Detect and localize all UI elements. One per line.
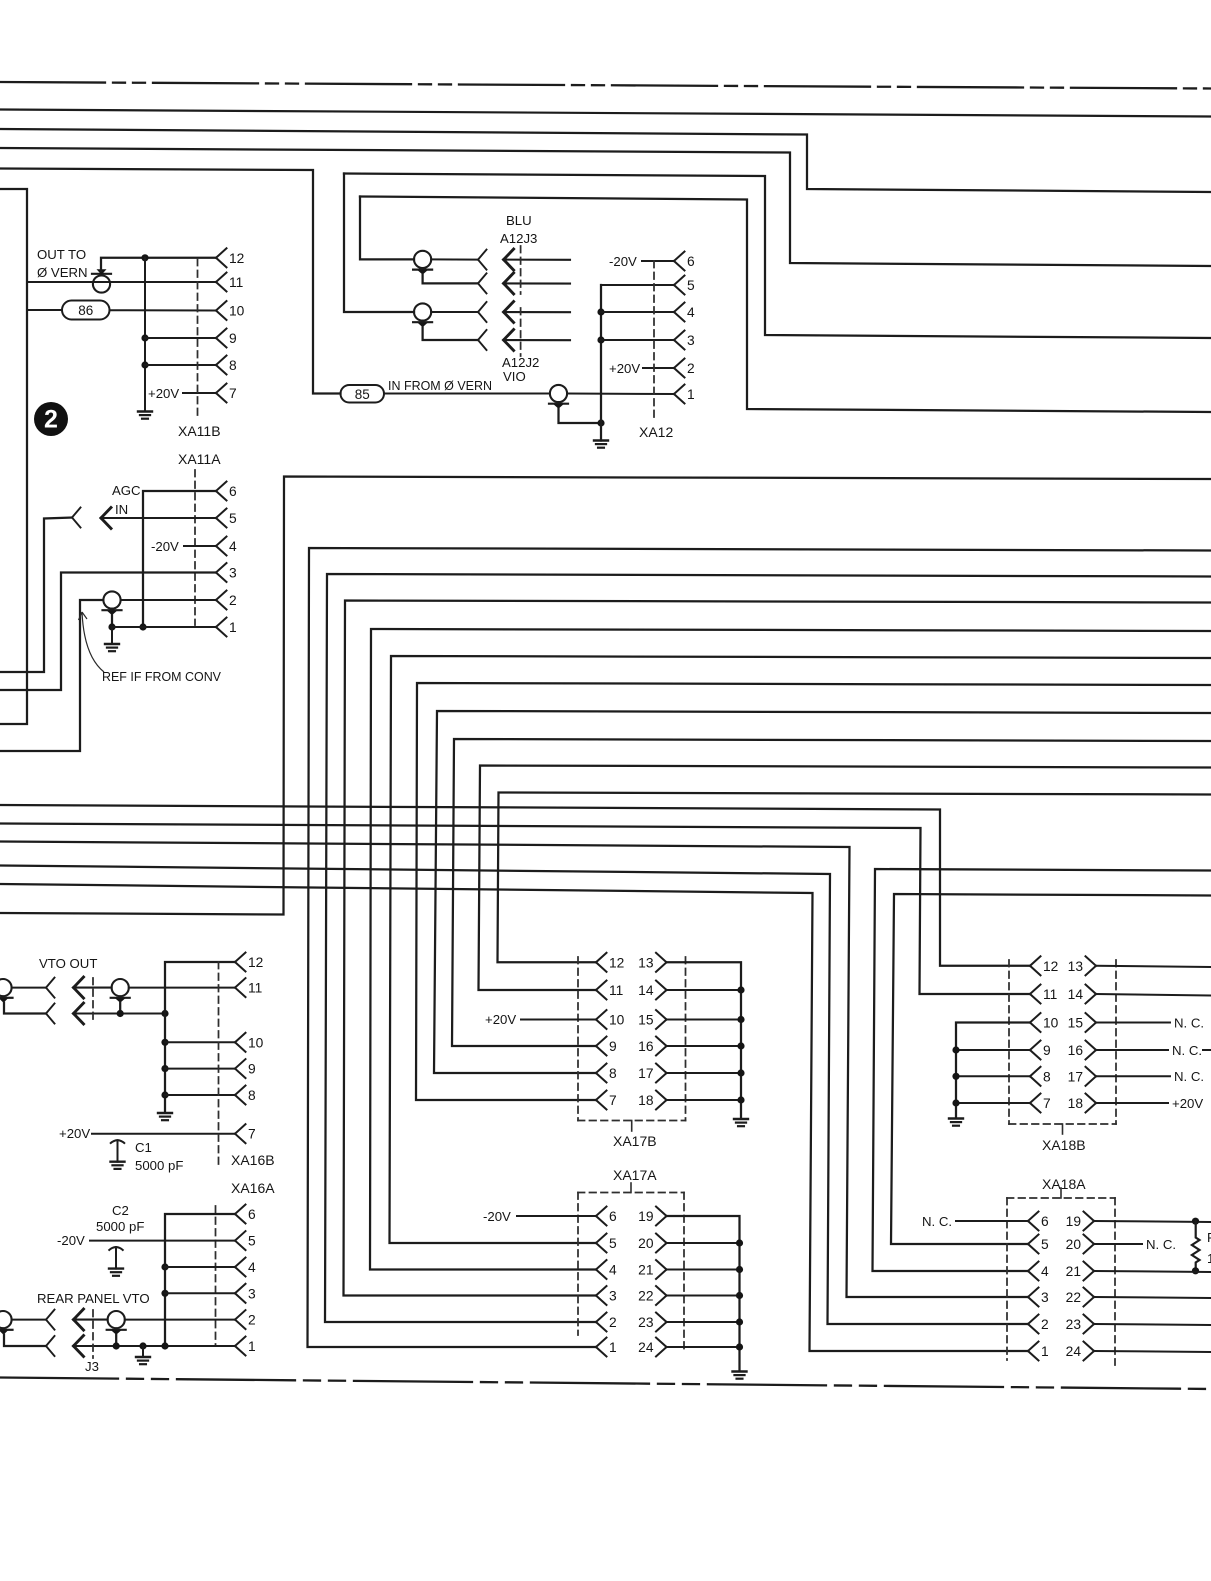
- label XA12: [639, 424, 673, 440]
- svg-text:J3: J3: [85, 1359, 99, 1374]
- svg-text:C2: C2: [112, 1203, 129, 1218]
- wire XA12 pin5: [601, 284, 674, 286]
- wire ground bus XA11B: [144, 258, 146, 411]
- wire mid coax shield stub: [119, 1003, 121, 1014]
- wire XA17A pin20 to bus + junction: [667, 1239, 744, 1246]
- plug half row4: [478, 330, 487, 350]
- wire W5 (bundle): [370, 629, 1211, 1270]
- wire L3 stepped: [0, 148, 1211, 266]
- svg-text:6: 6: [248, 1207, 256, 1222]
- leader arrow REF IF FROM CONV: [79, 612, 105, 672]
- connector XA11B pin 10: [216, 301, 245, 320]
- wire M1 to XA18B pin12: [0, 805, 1030, 966]
- coax jack at sheet edge (REAR PANEL VTO): [0, 1311, 13, 1335]
- connector XA17A pin 5: [596, 1234, 617, 1253]
- wire W8 (bundle): [434, 711, 1211, 1073]
- REAR VTO plug half row1: [46, 1310, 55, 1330]
- connector XA17A pin 19: [638, 1207, 666, 1226]
- label -20V at XA16A pin5: [57, 1233, 85, 1248]
- wire W1 (bundle outer, to left edge): [0, 477, 1211, 915]
- connector XA18B pin 15: [1068, 1013, 1096, 1032]
- junction ground stub/pin1: [139, 1342, 146, 1349]
- junction bus/pin1: [161, 1342, 168, 1349]
- connector XA18A pin 6: [1028, 1212, 1049, 1231]
- wire L4b branch to A12J2 coax: [344, 174, 414, 313]
- connector XA11B pin 7: [216, 384, 237, 403]
- svg-text:1: 1: [1041, 1344, 1049, 1359]
- wire XA18B pin10 + ground bus: [956, 1023, 1030, 1119]
- connector XA17A pin 21: [638, 1260, 666, 1279]
- label BLU / A12J3: [500, 213, 537, 246]
- wire XA17A pin24 to bus + junction: [667, 1343, 744, 1350]
- connector XA17A pin 23: [638, 1313, 666, 1332]
- junction shield/pin1: [113, 1342, 120, 1349]
- svg-text:7: 7: [1043, 1096, 1051, 1111]
- label N.C. pin16: [1172, 1043, 1202, 1058]
- svg-text:+20V: +20V: [485, 1012, 516, 1027]
- wire W11 (bundle): [498, 793, 1211, 963]
- wire coax2 shield to row4: [423, 327, 478, 340]
- svg-text:21: 21: [638, 1263, 653, 1278]
- wire edge coax to plug arrow: [12, 1319, 46, 1321]
- svg-text:8: 8: [229, 358, 237, 373]
- label XA17A: [613, 1167, 657, 1183]
- wire XA18B pin13 to edge: [1096, 966, 1211, 967]
- label N.C. at XA18A pin6: [922, 1214, 952, 1229]
- svg-text:12: 12: [609, 955, 624, 970]
- connector XA16B pin 11: [235, 978, 262, 997]
- wire -20V to XA12 pin6: [642, 260, 674, 262]
- label XA18A: [1042, 1176, 1086, 1192]
- svg-text:3: 3: [609, 1289, 617, 1304]
- svg-text:16: 16: [638, 1039, 654, 1054]
- svg-text:3: 3: [1041, 1290, 1049, 1305]
- label XA11A: [178, 451, 221, 467]
- svg-text:5: 5: [229, 511, 237, 526]
- label XA16A: [231, 1180, 275, 1196]
- svg-text:4: 4: [609, 1263, 617, 1278]
- flag 86 oval: [62, 301, 110, 320]
- label C1 5000 pF: [135, 1140, 183, 1173]
- svg-text:5000 pF: 5000 pF: [96, 1219, 144, 1234]
- connector XA16B pin 12: [235, 953, 263, 972]
- svg-text:-20V: -20V: [609, 254, 637, 269]
- junction bus/pin9: [161, 1065, 168, 1072]
- wire: bottom sheet boundary (dash-dot): [0, 1378, 1211, 1390]
- plug half row3: [478, 302, 487, 322]
- connector XA18B pin 7: [1030, 1094, 1051, 1113]
- svg-text:1: 1: [687, 387, 695, 402]
- wire stub to ground: [111, 627, 113, 644]
- label +20V at XA12 pin2: [609, 361, 640, 376]
- label XA11B: [178, 423, 221, 439]
- wire XA16B pin12 + ground bus: [165, 962, 235, 1113]
- wire L1 full-width: [0, 110, 1211, 117]
- connector XA11A pin 2: [216, 591, 237, 610]
- svg-text:-20V: -20V: [151, 539, 179, 554]
- svg-text:18: 18: [1068, 1096, 1084, 1111]
- wire XA17B pin16 to bus + junction: [667, 1042, 745, 1049]
- wire coax1 shield to row2: [423, 275, 478, 284]
- AGC IN jack half (bold arrow): [101, 508, 111, 529]
- junction row2/bus: [161, 1010, 168, 1017]
- connector XA11A pin 4: [216, 537, 237, 556]
- svg-text:17: 17: [638, 1066, 653, 1081]
- junction bus/pin4: [597, 308, 604, 315]
- svg-text:11: 11: [1043, 987, 1057, 1002]
- wire N.C. pin16 continues to edge: [1203, 1049, 1211, 1051]
- ground XA12 bus: [594, 441, 608, 448]
- svg-text:85: 85: [355, 387, 370, 402]
- wire XA18B pin7 to bus + junction: [952, 1099, 1030, 1106]
- wire coax2 to plug arrow row3: [431, 311, 478, 313]
- svg-text:5000 pF: 5000 pF: [135, 1158, 183, 1173]
- svg-text:10: 10: [609, 1013, 625, 1028]
- wire stub to ground: [142, 1346, 144, 1357]
- svg-text:N. C.: N. C.: [1174, 1069, 1204, 1084]
- connector XA17B pin 8: [596, 1064, 617, 1083]
- coax jack REAR PANEL VTO (middle): [107, 1311, 126, 1335]
- connector XA17A pin 2: [596, 1313, 617, 1332]
- wire W6 (bundle): [390, 656, 1211, 1243]
- wire XA17B pin14 to bus + junction: [667, 986, 745, 993]
- connector XA18A pin 21: [1066, 1262, 1094, 1281]
- svg-text:3: 3: [229, 566, 237, 581]
- label REAR PANEL VTO: [37, 1291, 150, 1306]
- connector XA17A pin 6: [596, 1207, 617, 1226]
- svg-text:22: 22: [1066, 1290, 1081, 1305]
- wire XA18A pin20 to N.C.: [1094, 1243, 1142, 1245]
- connector XA18B pin 13: [1068, 956, 1096, 975]
- connector XA16B pin 7: [235, 1124, 256, 1143]
- wire XA12 ground bus vertical: [600, 285, 602, 441]
- connector XA16A pin 2: [235, 1310, 256, 1329]
- connector XA18B pin 8: [1030, 1067, 1051, 1086]
- connector XA18A pin 23: [1066, 1315, 1094, 1334]
- connector XA11A pin 6: [216, 482, 237, 501]
- connector XA11B pin 11: [216, 273, 243, 292]
- connector XA17A pin 20: [638, 1234, 666, 1253]
- junction resistor top: [1192, 1218, 1199, 1225]
- svg-text:+20V: +20V: [59, 1126, 90, 1141]
- wire flag86 left tail: [27, 309, 62, 311]
- ground XA18B bus: [949, 1119, 963, 1126]
- connector XA17B pin 16: [638, 1037, 666, 1056]
- VTO OUT jack half row2 (bold): [74, 1003, 84, 1024]
- wire flag86 to XA11B pin10: [110, 309, 217, 311]
- svg-text:19: 19: [638, 1209, 654, 1224]
- connector XA18B pin 9: [1030, 1041, 1051, 1060]
- svg-text:5: 5: [609, 1236, 617, 1251]
- connector XA16B pin 8: [235, 1086, 256, 1105]
- connector plane VTO OUT (dashed): [92, 978, 94, 1022]
- connector XA17B dashed outline: [578, 957, 686, 1131]
- wire XA17B pin18 to bus + junction: [667, 1096, 745, 1103]
- connector XA16A pin 1: [235, 1337, 256, 1356]
- jack half row1 (bold arrow): [504, 249, 514, 270]
- svg-text:2: 2: [1041, 1317, 1049, 1332]
- wire flag85 to coax3: [384, 393, 550, 395]
- connector plane A12J3 (dashed): [520, 246, 522, 294]
- connector XA18B pin 14: [1068, 985, 1096, 1004]
- wire jack tail row1: [504, 259, 570, 261]
- connector XA12 pin 4: [674, 303, 695, 322]
- svg-text:1: 1: [609, 1340, 617, 1355]
- svg-text:18: 18: [638, 1093, 654, 1108]
- connector XA17B pin 7: [596, 1091, 617, 1110]
- connector XA17A pin 1: [596, 1338, 617, 1357]
- wire XA11B pin9: [145, 337, 216, 339]
- wire +20V to XA12 pin2: [643, 367, 674, 369]
- connector XA11A pin 5: [216, 509, 237, 528]
- connector XA17B pin 9: [596, 1037, 617, 1056]
- wire W9 (bundle): [452, 739, 1211, 1046]
- wire XA18A pin22 to edge: [1094, 1297, 1211, 1298]
- svg-text:13: 13: [638, 955, 654, 970]
- connector XA17A pin 24: [638, 1338, 666, 1357]
- wire XA18B pin14 to edge: [1096, 994, 1211, 996]
- connector XA17B pin 14: [638, 981, 666, 1000]
- label -20V at XA11A pin4: [151, 539, 179, 554]
- plug half row2: [478, 273, 487, 293]
- svg-text:N. C.: N. C.: [1146, 1237, 1176, 1252]
- svg-text:15: 15: [638, 1013, 654, 1028]
- wire -20V to XA17A pin6: [517, 1215, 596, 1217]
- svg-text:11: 11: [229, 275, 243, 290]
- wire XA16A pin6 + bus: [165, 1214, 235, 1346]
- svg-text:10: 10: [248, 1035, 264, 1050]
- connector XA11B pin 9: [216, 329, 237, 348]
- wire XA18B pin17 to N.C.: [1096, 1075, 1170, 1077]
- capacitor C1 (feed-through): [110, 1140, 125, 1169]
- connector XA12 pin 2: [674, 359, 695, 378]
- connector XA18A pin 3: [1028, 1288, 1049, 1307]
- svg-text:11: 11: [609, 983, 623, 998]
- svg-text:5: 5: [1041, 1237, 1049, 1252]
- svg-text:1: 1: [248, 1339, 256, 1354]
- wire coax to XA11A pin2: [121, 599, 216, 601]
- junction bus/pin9: [141, 334, 148, 341]
- svg-text:6: 6: [609, 1209, 617, 1224]
- junction bus/pin10: [161, 1039, 168, 1046]
- svg-text:XA17B: XA17B: [613, 1133, 657, 1149]
- connector XA17B pin 12: [596, 953, 624, 972]
- VTO OUT plug half row2: [46, 1004, 55, 1024]
- coax plug A12J3 row1: [413, 251, 432, 275]
- wire M2 to XA18B pin11: [0, 824, 1030, 995]
- wire XA17A pin23 to bus + junction: [667, 1318, 744, 1325]
- wire L5 branch to A12J3 coax: [360, 197, 414, 260]
- wire coax3 to XA12 pin1: [567, 393, 674, 396]
- coax jack J-out (OUT TO Ø VERN): [92, 269, 111, 292]
- junction bus/pin4: [161, 1263, 168, 1270]
- svg-text:9: 9: [229, 331, 237, 346]
- svg-text:9: 9: [609, 1039, 617, 1054]
- label XA17B: [613, 1133, 657, 1149]
- svg-text:7: 7: [248, 1127, 256, 1142]
- label +20V at XA16B pin7: [59, 1126, 90, 1141]
- wire W7 (bundle): [416, 683, 1211, 1100]
- wire XA17B pin13 + ground bus: [667, 962, 742, 1118]
- junction on pin12 wire: [141, 254, 148, 261]
- wire XA17A pin19 + ground bus: [667, 1216, 740, 1371]
- junction bus/pin3: [597, 336, 604, 343]
- label +20V at XA17B pin10: [485, 1012, 516, 1027]
- svg-text:N. C.: N. C.: [922, 1214, 952, 1229]
- svg-text:23: 23: [638, 1315, 654, 1330]
- connector XA11A pin 3: [216, 563, 237, 582]
- svg-text:7: 7: [229, 386, 237, 401]
- wire XA11A pin3 feeder: [0, 573, 216, 691]
- svg-text:XA11B: XA11B: [178, 423, 221, 439]
- coax jack (REF IF FROM CONV): [103, 591, 122, 615]
- svg-text:2: 2: [609, 1315, 617, 1330]
- svg-text:1: 1: [229, 620, 237, 635]
- connector XA17B pin 18: [638, 1091, 666, 1110]
- svg-text:4: 4: [229, 539, 237, 554]
- connector XA18A dashed outline: [1007, 1188, 1115, 1365]
- svg-text:3: 3: [687, 333, 695, 348]
- jack half row3 (bold): [504, 302, 514, 323]
- connector XA12 pin 1: [674, 385, 695, 404]
- wire XA18B pin16 to N.C.: [1096, 1049, 1168, 1051]
- ground XA17B bus: [734, 1119, 748, 1126]
- connector XA17A pin 3: [596, 1286, 617, 1305]
- connector XA17B pin 10: [596, 1010, 625, 1029]
- svg-text:8: 8: [609, 1066, 617, 1081]
- wire +20V to XA16B pin7: [92, 1133, 235, 1135]
- svg-text:XA16A: XA16A: [231, 1180, 275, 1196]
- wire XA18A pin24 to edge: [1094, 1351, 1211, 1352]
- connector XA18A pin 19: [1066, 1212, 1094, 1231]
- connector XA17B pin 15: [638, 1010, 666, 1029]
- wire XA16B pin8: [165, 1094, 235, 1096]
- wire XA18A pin19 to edge: [1094, 1221, 1211, 1222]
- svg-text:86: 86: [78, 303, 93, 318]
- wire M3 to XA18A pin3: [0, 842, 1028, 1298]
- svg-text:13: 13: [1068, 959, 1084, 974]
- svg-text:8: 8: [248, 1088, 256, 1103]
- VTO OUT plug half row1: [46, 978, 55, 998]
- svg-text:10: 10: [1043, 1016, 1059, 1031]
- coax jack (IN FROM Ø VERN): [549, 385, 568, 409]
- svg-text:10: 10: [229, 304, 245, 319]
- label C2 5000 pF: [96, 1203, 144, 1234]
- svg-text:C1: C1: [135, 1140, 152, 1155]
- wire coax shield stub: [111, 615, 113, 627]
- connector plane XA11B (dashed): [197, 259, 199, 418]
- connector XA12 pin 5: [674, 276, 695, 295]
- svg-text:XA17A: XA17A: [613, 1167, 657, 1183]
- connector plane XA11A (dashed): [194, 470, 196, 625]
- jack half row2 (bold): [504, 273, 514, 294]
- label AGC IN: [112, 483, 141, 517]
- wire G from right edge to XA18A pin5: [891, 894, 1211, 1244]
- svg-text:XA18A: XA18A: [1042, 1176, 1086, 1192]
- svg-text:22: 22: [638, 1289, 653, 1304]
- capacitor C2 (feed-through): [109, 1247, 124, 1276]
- label N.C. pin20: [1146, 1237, 1176, 1252]
- svg-text:REF IF FROM CONV: REF IF FROM CONV: [102, 669, 221, 684]
- svg-text:17: 17: [1068, 1069, 1083, 1084]
- connector XA17B pin 11: [596, 981, 623, 1000]
- connector XA18B dashed outline: [1009, 960, 1116, 1134]
- junction shield/row2: [117, 1010, 124, 1017]
- wire W10 (bundle): [479, 766, 1211, 991]
- label N.C. pin17: [1174, 1069, 1204, 1084]
- coax jack VTO OUT (middle): [111, 979, 130, 1003]
- connector XA18A pin 5: [1028, 1235, 1049, 1254]
- wire XA11A pin6 + bus: [143, 491, 216, 627]
- wire XA18B pin18 to +20V: [1096, 1102, 1168, 1104]
- wire left feeder V1 (pin11/86 net): [0, 189, 27, 724]
- svg-text:XA16B: XA16B: [231, 1152, 275, 1168]
- wire W4 (bundle): [344, 601, 1211, 1296]
- wire XA11B pin12 to coax: [101, 258, 216, 271]
- svg-text:12: 12: [248, 955, 263, 970]
- ground XA16B bus: [158, 1113, 172, 1120]
- ground XA11A: [105, 644, 119, 651]
- svg-text:5: 5: [687, 278, 695, 293]
- svg-text:6: 6: [229, 484, 237, 499]
- wire XA16A pin3: [165, 1292, 235, 1294]
- connector XA11B pin 12: [216, 248, 244, 267]
- wire edge coax shield to row2: [4, 1335, 46, 1346]
- REAR VTO jack half row2 (bold): [74, 1336, 84, 1357]
- wire M5 to XA18A pin1: [0, 884, 1028, 1351]
- wire XA11A pin1: [112, 626, 216, 628]
- wire jack row1 to coax: [74, 1319, 108, 1321]
- connector XA18A pin 2: [1028, 1315, 1049, 1334]
- connector plane A12J2 (dashed): [520, 308, 522, 356]
- wire edge coax to plug arrow: [12, 987, 46, 989]
- svg-text:2: 2: [229, 593, 237, 608]
- svg-text:14: 14: [1068, 987, 1084, 1002]
- coax jack at sheet edge (VTO OUT): [0, 979, 13, 1003]
- junction shield/ground bus: [597, 419, 604, 426]
- svg-text:7: 7: [609, 1093, 617, 1108]
- wire edge coax shield to row2: [4, 1003, 46, 1014]
- svg-text:20: 20: [638, 1236, 654, 1251]
- svg-text:-20V: -20V: [483, 1209, 511, 1224]
- label -20V at XA17A pin6: [483, 1209, 511, 1224]
- wire XA17A pin22 to bus + junction: [667, 1292, 744, 1299]
- wire XA17B pin15 to bus + junction: [667, 1016, 745, 1023]
- connector plane J3 (dashed): [92, 1310, 94, 1358]
- connector XA18B pin 18: [1068, 1094, 1096, 1113]
- wire XA18A pin23 to edge: [1094, 1324, 1211, 1325]
- wire mid coax shield stub: [115, 1335, 117, 1346]
- wire coax to XA16B pin11: [129, 987, 235, 989]
- svg-text:REAR PANEL VTO: REAR PANEL VTO: [37, 1291, 150, 1306]
- wire jack tail row2: [504, 282, 570, 284]
- connector XA18B pin 17: [1068, 1067, 1096, 1086]
- wire +20V to XA17B pin10: [521, 1019, 596, 1021]
- label A12J2 / VIO: [502, 355, 539, 384]
- svg-text:9: 9: [248, 1062, 256, 1077]
- svg-text:16: 16: [1068, 1043, 1084, 1058]
- REAR VTO jack half row1 (bold): [74, 1309, 84, 1330]
- wire XA18B pin15 to N.C.: [1096, 1022, 1170, 1024]
- label J3: [85, 1359, 99, 1374]
- label +20V at XA11B pin7: [148, 386, 179, 401]
- wire XA16A pin1 row: [74, 1345, 236, 1347]
- connector XA18A pin 24: [1066, 1342, 1094, 1361]
- connector plane XA16A (dashed): [215, 1206, 217, 1346]
- label N.C. pin15: [1174, 1016, 1204, 1031]
- svg-text:Ø VERN: Ø VERN: [37, 265, 88, 280]
- wire AGC IN feeder: [0, 518, 72, 673]
